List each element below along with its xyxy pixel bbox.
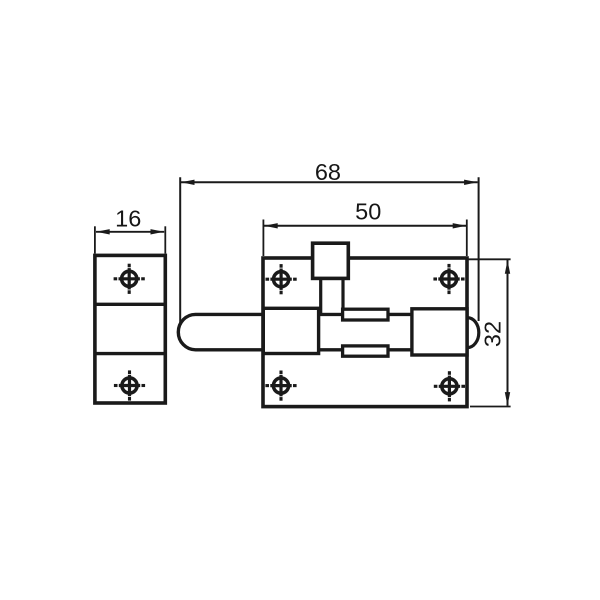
svg-text:50: 50 [355, 199, 381, 225]
svg-text:32: 32 [480, 321, 506, 347]
svg-text:68: 68 [315, 159, 341, 185]
svg-text:16: 16 [115, 206, 141, 232]
